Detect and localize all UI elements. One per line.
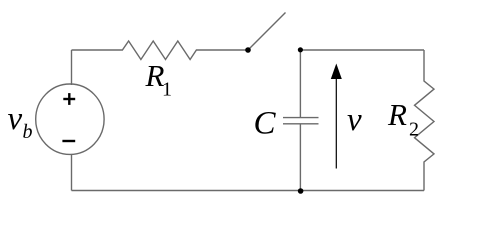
- svg-text:1: 1: [162, 79, 172, 101]
- svg-text:2: 2: [409, 119, 419, 141]
- svg-text:v: v: [347, 102, 362, 138]
- svg-text:b: b: [23, 121, 33, 143]
- svg-text:R: R: [387, 97, 407, 132]
- svg-text:v: v: [8, 101, 23, 137]
- svg-text:C: C: [254, 106, 277, 142]
